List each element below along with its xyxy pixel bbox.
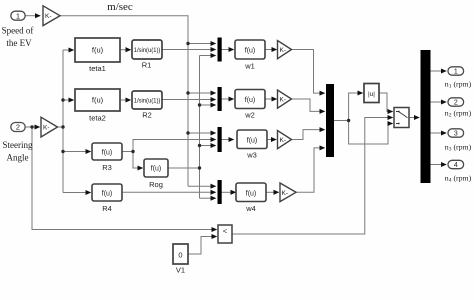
svg-text:n1 (rpm): n1 (rpm) (445, 80, 472, 90)
wire: steering feedback down and across bottom to compare (32, 127, 217, 230)
svg-text:w4: w4 (245, 204, 256, 213)
block w3 (237, 130, 267, 160)
wire: m/sec branch to mux2 input1 (188, 92, 216, 94)
wire: R3 junction down to Rog input (133, 152, 143, 169)
wire: Rog bus to mux3 input3 (200, 145, 216, 147)
wire: junction down around to switch input3 (349, 121, 393, 145)
svg-text:K-: K- (282, 190, 289, 197)
svg-text:1/sin(u(1)): 1/sin(u(1)) (134, 47, 161, 54)
node: big mux output junction (347, 119, 350, 122)
wire: switch output to demux (409, 117, 419, 119)
svg-text:n2 (rpm): n2 (rpm) (445, 109, 472, 119)
wire: bus to R3 input (63, 151, 91, 153)
block teta2 (75, 89, 120, 123)
svg-text:2: 2 (454, 100, 458, 107)
svg-text:K-: K- (45, 13, 52, 20)
svg-text:K-: K- (280, 137, 287, 144)
svg-text:f(u): f(u) (102, 150, 113, 157)
svg-text:f(u): f(u) (246, 191, 257, 198)
output port n1 (445, 67, 472, 90)
wire: abs output to switch input1 (379, 93, 393, 112)
svg-text:f(u): f(u) (247, 138, 258, 145)
wire: gain Kw3 to big mux input3 (292, 130, 325, 140)
wire: bus to teta1 input (63, 49, 74, 51)
block w1 (235, 40, 265, 71)
node: Rog bus tap mux2 (198, 103, 201, 106)
output port n2 (445, 98, 472, 119)
output port n4 (445, 160, 472, 183)
block w2 (235, 90, 265, 120)
block R1 (1/sin) (132, 40, 162, 70)
mux M4 (218, 180, 222, 204)
wire: R4 to mux4 input2 (122, 191, 216, 193)
node: Rog output junction (198, 166, 201, 169)
mux M1 (218, 38, 222, 62)
svg-text:f(u): f(u) (92, 46, 104, 55)
wire: demux output1 to port n1 (431, 70, 447, 72)
node: m/sec tap mux2 (186, 91, 189, 94)
svg-text:w1: w1 (244, 62, 255, 71)
wire: w3 to gain Kw3 (267, 139, 276, 141)
wire: mux3 to w3 (222, 139, 234, 141)
svg-text:V1: V1 (176, 266, 185, 275)
svg-text:Rog: Rog (149, 180, 163, 189)
wire: mux2 to w2 (222, 98, 234, 100)
wire: steering bus vertical (62, 50, 64, 193)
wire: V1 constant to compare input2 (188, 237, 217, 255)
wire: Rog output to vertical Rog bus (168, 167, 200, 169)
gain K2 (steering) (41, 117, 58, 137)
gain Kw3 (278, 131, 292, 149)
wire: w2 to gain Kw2 (265, 98, 277, 100)
wire: gain Kw1 to big mux input1 (292, 50, 325, 94)
wire: teta1 to R1 (120, 49, 131, 51)
svg-text:f(u): f(u) (151, 166, 162, 173)
node: bus tap teta2 (61, 98, 64, 101)
wire: mux4 to w4 (222, 191, 236, 193)
wire: demux output2 to port n2 (431, 101, 447, 103)
mux M2 (218, 87, 222, 111)
svg-text:n4 (rpm): n4 (rpm) (445, 174, 472, 184)
block R2 (1/sin) (132, 91, 162, 120)
wire: bus to teta2 input (63, 99, 74, 101)
svg-text:Speed of: Speed of (2, 26, 34, 36)
constant V1 (173, 244, 188, 275)
svg-text:R4: R4 (102, 204, 112, 213)
wire: input2 to gain2 (25, 126, 39, 128)
wire: demux output4 to port n4 (431, 164, 447, 166)
svg-text:w2: w2 (244, 111, 255, 120)
wire: gain1 output m/sec line across top and down (60, 16, 188, 187)
wire: Rog bus to mux1 input3 (200, 55, 216, 57)
switch block (394, 108, 409, 128)
gain K1 (speed) (43, 6, 60, 26)
svg-text:f(u): f(u) (92, 96, 104, 105)
svg-text:1: 1 (16, 11, 20, 20)
mux M3 (218, 127, 222, 152)
svg-text:3: 3 (454, 131, 458, 138)
node: bus tap R3 (61, 150, 64, 153)
wire: m/sec branch to mux3 input1 (188, 132, 216, 134)
gain Kw2 (278, 90, 292, 108)
wire: demux output3 to port n3 (431, 132, 447, 134)
output port n3 (445, 129, 472, 153)
block Rog (144, 159, 168, 189)
svg-text:f(u): f(u) (102, 191, 113, 198)
svg-text:R3: R3 (102, 163, 112, 172)
svg-text:0: 0 (178, 251, 182, 260)
svg-text:R2: R2 (142, 111, 152, 120)
wire: m/sec end to mux4 input1 (188, 185, 216, 187)
node: m/sec tap mux3 (186, 131, 189, 134)
svg-text:the EV: the EV (6, 38, 32, 48)
svg-text:K-: K- (280, 47, 287, 54)
svg-text:2: 2 (16, 123, 20, 132)
svg-text:m/sec: m/sec (107, 1, 133, 13)
svg-text:<: < (223, 227, 228, 236)
wire: R1 to mux1 input2 (162, 49, 216, 51)
block R3 (92, 143, 122, 172)
wire: R2 to mux2 input2 (162, 99, 216, 101)
wire: Rog bus to mux2 input3 (200, 104, 216, 106)
demux (421, 50, 431, 183)
wire: gain2 output to distribution bus (58, 126, 64, 128)
node: Rog bus tap mux3 (198, 144, 201, 147)
input port 1 (2, 11, 34, 48)
wire: input1 to gain1 (25, 15, 40, 17)
compare block (<) (218, 225, 232, 243)
svg-text:K-: K- (43, 125, 50, 132)
wire: w4 to gain Kw4 (266, 191, 279, 193)
abs block |u| (364, 84, 379, 103)
svg-text:f(u): f(u) (245, 97, 256, 104)
wire: gain Kw4 to big mux input4 (296, 148, 325, 192)
svg-text:n3 (rpm): n3 (rpm) (445, 143, 472, 153)
wire: Rog bus vertical (199, 56, 201, 199)
block w4 (236, 183, 266, 213)
gain Kw1 (278, 41, 292, 59)
big mux (326, 84, 334, 157)
wire: junction up to abs block (349, 93, 363, 121)
wire: mux1 to w1 (222, 49, 234, 51)
svg-text:w3: w3 (246, 151, 257, 160)
wire: gain Kw2 to big mux input2 (292, 99, 325, 111)
wire: R3 output junction up to mux3 input2 (122, 140, 216, 152)
wire: compare output up to switch input2 (control) (232, 118, 393, 235)
wire: teta2 to R2 (120, 99, 131, 101)
node: R3 output junction (131, 150, 134, 153)
gain Kw4 (280, 183, 296, 202)
svg-text:f(u): f(u) (245, 48, 256, 55)
svg-text:|u|: |u| (368, 91, 375, 98)
node: steering feedback tap (30, 125, 33, 128)
svg-text:4: 4 (454, 162, 458, 169)
svg-text:Angle: Angle (7, 153, 29, 163)
block R4 (92, 184, 122, 213)
svg-text:1: 1 (454, 69, 458, 76)
wire: Rog bus to mux4 input3 (200, 197, 216, 199)
wire: m/sec branch to mux1 input1 (188, 43, 216, 45)
svg-text:teta2: teta2 (89, 114, 106, 123)
svg-text:K-: K- (280, 97, 287, 104)
svg-text:Steering: Steering (3, 140, 33, 150)
svg-text:1/sin(u(1)): 1/sin(u(1)) (134, 98, 161, 105)
node: gain2 output junction (61, 125, 64, 128)
svg-text:R1: R1 (142, 61, 152, 70)
input port 2 (3, 123, 33, 163)
wire: big mux output to junction (334, 120, 349, 122)
wire: w1 to gain Kw1 (265, 49, 277, 51)
node: m/sec tap mux1 (186, 42, 189, 45)
wire: bus to R4 input (63, 192, 91, 194)
svg-text:teta1: teta1 (89, 64, 106, 73)
block teta1 (75, 38, 120, 73)
